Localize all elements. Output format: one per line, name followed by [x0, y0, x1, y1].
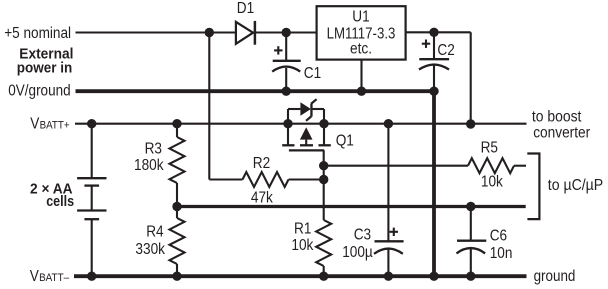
- svg-text:C1: C1: [304, 65, 321, 82]
- svg-text:R2: R2: [253, 155, 270, 172]
- svg-text:V: V: [30, 116, 40, 133]
- svg-text:+5 nominal: +5 nominal: [4, 25, 71, 42]
- svg-text:10k: 10k: [481, 174, 503, 191]
- svg-text:D1: D1: [237, 0, 254, 17]
- svg-text:R3: R3: [145, 141, 162, 158]
- svg-text:10n: 10n: [490, 245, 513, 262]
- svg-text:C6: C6: [490, 228, 507, 245]
- svg-text:10k: 10k: [291, 237, 313, 254]
- svg-text:180k: 180k: [134, 157, 164, 174]
- svg-text:330k: 330k: [135, 241, 165, 258]
- svg-text:converter: converter: [533, 125, 590, 142]
- svg-text:R5: R5: [481, 139, 498, 156]
- svg-text:R1: R1: [294, 220, 311, 237]
- svg-text:47k: 47k: [251, 189, 273, 206]
- svg-text:to boost: to boost: [532, 108, 582, 125]
- svg-text:V: V: [30, 268, 40, 285]
- svg-text:BATT–: BATT–: [39, 272, 69, 284]
- svg-text:100µ: 100µ: [342, 244, 373, 261]
- svg-text:cells: cells: [46, 194, 74, 210]
- svg-text:BATT+: BATT+: [40, 120, 70, 132]
- svg-text:U1: U1: [352, 8, 369, 25]
- svg-text:0V/ground: 0V/ground: [8, 82, 70, 99]
- svg-text:etc.: etc.: [350, 41, 372, 58]
- svg-text:C3: C3: [354, 227, 371, 244]
- svg-text:ground: ground: [534, 268, 576, 285]
- svg-text:power in: power in: [17, 61, 73, 77]
- svg-text:to µC/µP: to µC/µP: [548, 177, 603, 194]
- svg-text:R4: R4: [146, 223, 164, 240]
- svg-text:Q1: Q1: [336, 133, 354, 150]
- svg-text:C2: C2: [437, 42, 454, 59]
